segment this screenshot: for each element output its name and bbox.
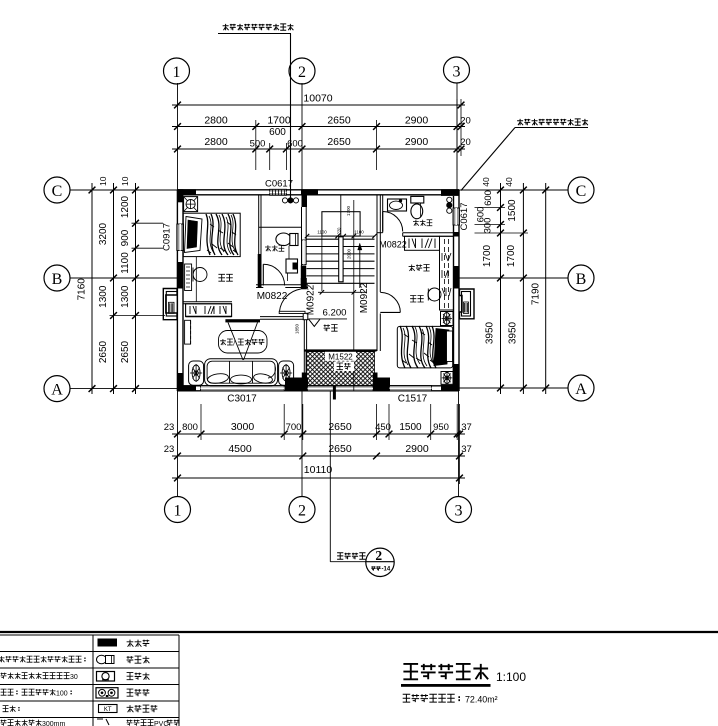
legend row6 icon partial [97,719,109,725]
tv cabinet bar [225,319,260,322]
svg-text:1100: 1100 [317,230,327,235]
svg-text:2650: 2650 [327,136,351,148]
room label bathroom left [265,245,271,251]
right dimension line middle [522,183,524,394]
grid bubble B right [568,265,594,291]
svg-text:950: 950 [433,422,449,433]
left dimension line outer 7160 [91,183,93,394]
leader line top [290,34,292,201]
lamp symbol right bedroom [428,288,441,301]
title block border line [0,631,718,633]
svg-text:600: 600 [287,139,303,150]
svg-text:23: 23 [164,444,175,455]
flue shaft symbol [184,197,198,212]
svg-text:3000: 3000 [231,421,255,433]
leader note right: plumbing pipes indoors [517,119,523,125]
duct partition line [259,226,302,228]
column right wall at B [454,266,460,289]
grid line B left [70,277,177,279]
svg-text:10: 10 [98,176,108,186]
closet hatched below right bath [405,236,440,250]
washbasin left bathroom [286,259,298,273]
legend row5 icon ac outdoor [99,705,118,713]
balcony detail circle [366,548,394,576]
grid line C left [70,189,177,191]
left dim extension lines [132,222,164,224]
legend table lines [0,634,179,636]
svg-text:2650: 2650 [327,115,351,127]
legend row4 label [127,689,134,696]
balcony detail leader line [329,391,331,562]
svg-text:600: 600 [483,190,494,206]
right dimension line outer 7190 [545,183,547,394]
svg-text:-14: -14 [382,567,391,573]
svg-text:1: 1 [174,503,182,520]
title underline [401,684,491,687]
door jamb square hall [303,313,308,319]
room label bathroom right [413,220,419,226]
svg-text:B: B [52,271,63,288]
room label cloakroom [409,265,415,272]
svg-text:2650: 2650 [328,421,352,433]
svg-text:2800: 2800 [204,136,228,148]
svg-text:2800: 2800 [204,115,228,127]
pipes top duct [282,198,287,203]
svg-text:900: 900 [120,229,131,246]
svg-text:C0617: C0617 [265,179,293,190]
grid bubble A right [568,375,594,401]
grid line 3 bottom [458,391,460,497]
svg-text:C1517: C1517 [398,394,428,405]
svg-text:1300: 1300 [98,285,109,308]
stair flight boundary line [321,236,323,291]
grid line 1 bottom [177,391,179,497]
svg-text:B: B [576,271,587,288]
svg-text:1100: 1100 [120,252,131,274]
wall black hall/living [301,278,307,289]
side table right with plant [279,361,294,385]
grid line B right [459,277,568,279]
svg-text:C0617: C0617 [459,203,470,231]
svg-text:3: 3 [455,503,463,520]
svg-text:2: 2 [298,64,306,81]
left dimension line inner [135,183,137,394]
wall bathroom south horizontal [256,284,308,286]
column grid3-A corner [453,364,459,391]
tv V lines [228,322,243,360]
window C0917 left wall [177,224,184,251]
legend row5 note [3,706,9,712]
grid bubble B left [44,265,70,291]
column right wall below C [454,232,460,237]
top dimension line row2 [172,126,465,128]
grid bubble C right [568,177,594,203]
bed right bedroom [397,326,452,368]
ac outdoor unit left [163,289,177,320]
svg-text:3200: 3200 [98,222,109,245]
leader note top: plumbing pipes indoors [223,24,229,30]
wall stair left vertical [301,207,303,288]
svg-text:10070: 10070 [303,93,332,105]
svg-text:1700: 1700 [506,244,517,267]
grid line 2 top [301,83,303,190]
wall left [176,190,178,391]
svg-text:40: 40 [504,177,514,187]
side table left with plant [189,361,204,385]
svg-text:6.200: 6.200 [323,307,347,318]
window C3017 bottom [201,386,285,392]
grid bubble 3 top [444,57,470,83]
dresser dashed living [185,320,191,344]
door label M1522 [325,352,356,361]
column grid3-C [441,189,459,196]
balcony top wall [304,349,377,351]
wall tea room west [303,320,305,373]
living hall edge double line [260,316,304,318]
stair dim 2000 vertical [353,200,355,292]
svg-text:PVC: PVC [154,721,168,726]
svg-text:300mm: 300mm [42,721,66,726]
column grid1-A corner [177,373,183,391]
leader line right diagonal [461,128,515,191]
svg-text:1200: 1200 [120,195,131,218]
svg-text:72.40m²: 72.40m² [465,695,498,705]
bottom dimension line row2 [172,455,465,457]
top dimension line row3 [172,148,465,150]
stair landing outline [322,212,360,236]
wall bottom [177,385,459,387]
door right bathroom leaf and arc [382,212,384,232]
plant square lower right [441,372,453,385]
legend row3 icon washbasin [97,672,115,682]
svg-text:2: 2 [298,503,306,520]
svg-text:37: 37 [461,444,472,455]
wall bedroom/bathroom vertical [258,195,260,288]
legend row1 label [127,640,134,647]
svg-text:1700: 1700 [267,115,291,127]
svg-text:2900: 2900 [405,443,429,455]
legend row6 label partial [127,720,133,726]
legend row1 icon structural column [98,639,118,647]
lamp symbol left bedroom [193,268,207,282]
bedroom closet edge line [195,257,197,302]
grid bubble 2 top [289,58,315,84]
tall closet right wall [440,236,454,310]
svg-text:A: A [51,382,63,399]
wall right-bath south horizontal [377,232,383,234]
stair center rail [339,237,343,282]
svg-text:1700: 1700 [482,244,493,267]
balcony detail label [337,553,343,560]
svg-text:1: 1 [173,64,181,81]
svg-text:300: 300 [483,218,494,234]
room label bedroom left [218,274,225,281]
top dim extension lines [255,120,257,170]
toilet right bathroom [411,196,424,203]
svg-text:1500: 1500 [507,199,518,222]
living room label box [219,331,268,354]
svg-text:100: 100 [56,691,68,698]
svg-text:700: 700 [286,422,302,433]
sofa [205,359,278,386]
svg-text:1850: 1850 [295,323,300,334]
column bottom left of balcony [285,378,308,392]
bottom dim extension lines [200,404,202,440]
stair bottom edge line [318,291,366,293]
bed left bedroom [183,213,240,256]
column grid2-C [301,189,318,195]
svg-text:3: 3 [453,64,461,81]
room label bedroom right [410,296,416,303]
legend row3 label [127,673,134,680]
grid line A right [459,387,569,389]
svg-text:30: 30 [70,674,78,681]
right dimension line inner [500,183,502,394]
room label living/spare kitchen [220,339,226,345]
svg-text:2900: 2900 [405,115,429,127]
svg-text:2650: 2650 [328,443,352,455]
window C0617 top [270,189,287,195]
svg-text:C3017: C3017 [227,394,257,405]
wall top [177,189,459,191]
top dimension line 10070 [172,104,465,106]
svg-text:C: C [52,183,63,200]
right dim extension lines [475,207,506,209]
svg-text:7160: 7160 [77,278,88,301]
stair treads [307,238,375,240]
grid bubble 1 bottom [165,497,191,523]
washbasin right bathroom [388,199,407,211]
svg-text:1300: 1300 [120,285,131,308]
svg-text:7190: 7190 [531,282,542,305]
ac outdoor unit right [460,289,475,319]
door M0922 hall leaf and arc [279,311,305,313]
plant square upper right [441,312,454,326]
svg-text:2900: 2900 [405,136,429,148]
svg-text:37: 37 [461,422,472,433]
svg-text:M1522: M1522 [328,352,353,361]
svg-text:1700: 1700 [346,205,351,216]
svg-text:M0922: M0922 [306,284,317,315]
room label tea room [324,325,330,332]
svg-text:A: A [575,381,587,398]
svg-text:/: / [233,340,235,347]
living/bedroom divider wall [183,301,232,303]
window C0617 right wall [453,208,460,225]
wall right [458,190,460,391]
grid line 1 top [177,83,179,190]
bottom dimension line row3 10110 [172,477,465,479]
title third floor plan [403,664,418,679]
cabinet below bedroom [186,304,232,317]
section line through balcony [353,292,355,391]
balcony drain pipe stub [333,386,336,400]
svg-text:2650: 2650 [98,340,109,363]
svg-text:2: 2 [375,548,382,563]
grid line C right [459,189,568,191]
toilet left bathroom [276,233,291,246]
svg-text:10110: 10110 [304,464,333,476]
legend row2 icon toilet [97,655,107,664]
svg-text:600: 600 [269,127,286,138]
svg-text:1500: 1500 [399,422,422,433]
door M0922 right bedroom leaf and arc [380,311,400,313]
grid bubble A left [44,376,70,402]
balcony railing window [308,386,374,391]
column left wall at B [177,262,183,289]
svg-text:C: C [576,183,587,200]
stair landing divider [340,195,342,236]
svg-text:800: 800 [182,422,198,433]
left dimension line middle [113,183,115,394]
svg-text:1:100: 1:100 [496,670,526,684]
wall right-bath west vertical [382,195,384,232]
door M0822 left bathroom leaf and arc [262,264,264,285]
svg-text:M0822: M0822 [379,240,407,250]
svg-text:10: 10 [120,176,130,186]
svg-text:450: 450 [375,422,391,433]
grid bubble C left [44,177,70,203]
pipes right duct [447,197,452,202]
svg-text:40: 40 [481,177,491,187]
grid bubble 2 bottom [289,497,315,523]
grid bubble 3 bottom [446,497,472,523]
wall stair right vertical [376,195,378,351]
stair direction arrow [359,246,361,288]
svg-text:20: 20 [460,137,471,148]
svg-text:3950: 3950 [508,321,519,344]
stair tiny dim line [307,235,375,237]
svg-text:20: 20 [460,116,471,127]
wall segment black stair-left [301,266,306,285]
bottom dimension line row1 [172,433,465,435]
svg-text:500: 500 [250,139,266,150]
svg-text:C0917: C0917 [162,223,173,251]
svg-text:2650: 2650 [120,340,131,363]
window C1517 bottom [390,386,432,392]
grid bubble 1 top [164,58,190,84]
svg-text:2000: 2000 [347,248,352,259]
svg-text:4500: 4500 [228,443,252,455]
grid line 2 bottom [301,391,303,497]
balcony crosshatch floor [306,352,375,386]
wall segment black bedroom/bath lower [258,254,262,288]
svg-text:3950: 3950 [485,321,496,344]
nightstand left [185,264,192,291]
title floor area note [403,694,411,702]
column grid1-C [177,189,196,195]
legend row5 label [127,705,134,712]
stairwell borrowed-light window [302,240,307,265]
svg-text:23: 23 [164,422,175,433]
legend row2 label [127,656,134,663]
grid line A left [70,388,177,390]
grid line 3 top [456,83,458,190]
svg-text:KT: KT [104,707,112,713]
svg-text:M0922: M0922 [359,282,370,313]
room label balcony [334,362,354,372]
column bottom right of balcony [373,373,378,392]
svg-text:220: 220 [337,227,342,235]
legend row4 icon stove [96,688,118,698]
